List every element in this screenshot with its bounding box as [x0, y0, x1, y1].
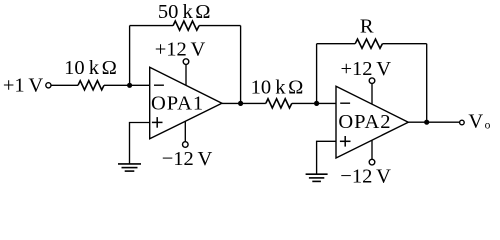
wire feedback2 top left	[317, 43, 356, 45]
resistor R3 10 kOhm	[266, 99, 292, 108]
terminal Vo output	[460, 120, 465, 125]
svg-text:10 kΩ: 10 kΩ	[64, 57, 117, 79]
svg-text:10 kΩ: 10 kΩ	[251, 77, 304, 99]
svg-text:o: o	[485, 120, 491, 132]
wire feedback down to OPA1 output	[240, 26, 242, 104]
node C junction dot	[314, 101, 319, 106]
U1 -12V supply pin	[184, 121, 186, 141]
wire node C up to feedback R	[316, 44, 318, 104]
wire OPA2 output to terminal	[408, 121, 459, 123]
svg-text:+12 V: +12 V	[340, 58, 391, 80]
wire R1 to OPA1 inverting input	[104, 84, 150, 86]
wire feedback2 top right	[382, 43, 426, 45]
wire feedback top left	[130, 25, 174, 27]
op-amp U1 OPA1 triangle	[150, 67, 222, 139]
node A junction dot	[127, 83, 132, 88]
wire feedback top right	[199, 25, 241, 27]
resistor R1 10 kOhm	[78, 81, 104, 90]
node B junction dot (OPA1 output)	[238, 101, 243, 106]
op-amp U2 OPA2 triangle	[336, 86, 408, 158]
svg-text:50 kΩ: 50 kΩ	[158, 1, 211, 23]
U2 plus pin symbol	[340, 140, 351, 142]
svg-text:OPA2: OPA2	[338, 111, 391, 133]
svg-text:OPA1: OPA1	[151, 92, 204, 114]
U1 minus pin symbol	[154, 84, 164, 86]
wire node A up to feedback	[129, 26, 131, 86]
svg-text:+12 V: +12 V	[155, 39, 206, 61]
U1 plus pin symbol	[152, 121, 163, 123]
svg-text:+1 V: +1 V	[3, 74, 44, 96]
wire OPA1 output	[222, 102, 266, 104]
U2 +12V supply pin	[371, 83, 373, 104]
U2 minus pin symbol	[340, 102, 350, 104]
terminal +1 V input	[46, 83, 51, 88]
wire R3 to OPA2 inverting input	[292, 102, 336, 104]
wire feedback2 down to OPA2 output	[426, 44, 428, 123]
U1 +12V supply pin	[185, 64, 187, 85]
svg-text:−12 V: −12 V	[340, 166, 391, 188]
ground G1	[118, 163, 141, 165]
wire input to R1	[51, 84, 78, 86]
wire U1 plus input to ground	[130, 123, 150, 164]
ground G2	[306, 173, 328, 175]
node D junction dot (OPA2 output)	[424, 120, 429, 125]
svg-text:V: V	[468, 110, 483, 132]
svg-text:−12 V: −12 V	[162, 148, 213, 170]
resistor R feedback	[355, 39, 382, 48]
svg-text:R: R	[360, 16, 374, 38]
wire U2 plus input to ground	[317, 141, 336, 174]
U2 -12V supply pin	[371, 140, 373, 159]
resistor R2 50 kOhm feedback	[173, 21, 199, 30]
